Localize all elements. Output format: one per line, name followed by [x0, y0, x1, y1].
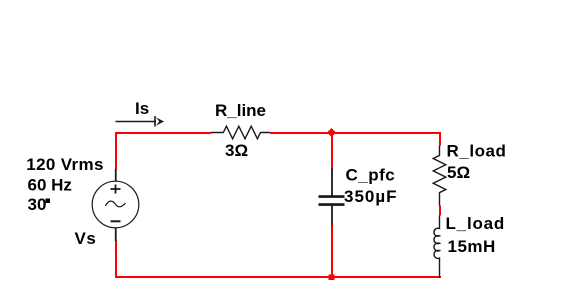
svg-text:R_line: R_line [215, 101, 266, 120]
wire bottom (net 0) [115, 276, 441, 278]
svg-text:Vs: Vs [75, 229, 97, 248]
wire right vertical middle (R_load to L_load) [439, 206, 441, 216]
voltage source Vs circle [92, 181, 139, 228]
svg-text:3Ω: 3Ω [225, 141, 248, 160]
wire R_line to top-right corner (net N2) [270, 132, 441, 134]
svg-text:15mH: 15mH [448, 237, 496, 256]
resistor R_line (3 ohm) [211, 126, 270, 139]
wire top-left to R_line (net N1) [115, 132, 211, 134]
capacitor C_pfc top plate [319, 195, 345, 198]
voltage source sine wave [106, 201, 126, 207]
inductor L_load (15mH) [434, 216, 440, 279]
junction node top (cap/top wire) [327, 128, 336, 137]
resistor R_load (5 ohm) [433, 146, 446, 206]
voltage source Vs top pin [115, 169, 117, 182]
voltage source plus sign [111, 185, 121, 194]
capacitor C_pfc bottom pin [331, 206, 333, 225]
svg-text:C_pfc: C_pfc [346, 166, 396, 185]
svg-text:30: 30 [28, 195, 47, 214]
voltage source minus sign [111, 220, 121, 222]
wire left vertical upper (source top) [115, 132, 117, 170]
svg-text:120 Vrms: 120 Vrms [26, 155, 103, 174]
capacitor C_pfc bottom plate [319, 203, 345, 206]
current arrow Is [116, 116, 165, 127]
capacitor C_pfc top pin [331, 168, 333, 196]
svg-text:350µF: 350µF [344, 187, 398, 206]
junction node bottom (cap/bottom wire) [329, 275, 335, 281]
wire capacitor branch lower [331, 224, 333, 278]
svg-text:Is: Is [135, 99, 149, 118]
wire right vertical upper (R_load top) [439, 132, 441, 146]
wire capacitor branch upper [331, 132, 333, 169]
svg-text:60 Hz: 60 Hz [28, 176, 72, 195]
svg-text:R_load: R_load [447, 142, 507, 161]
wire left vertical lower (source bottom) [115, 241, 117, 279]
svg-text:L_load: L_load [446, 214, 506, 233]
voltage source Vs bottom pin [115, 228, 117, 242]
svg-text:5Ω: 5Ω [447, 163, 470, 182]
label degree mark of 30 [46, 199, 51, 204]
